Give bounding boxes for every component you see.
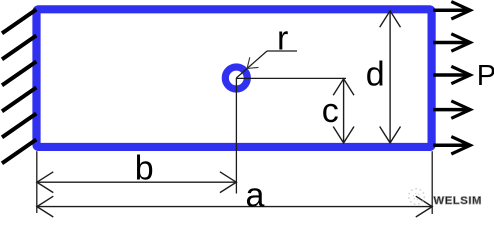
centerline vertical from hole down to b dimension xyxy=(235,78,237,194)
fixed-support hatch line 6 xyxy=(2,140,36,164)
extension line left (below bottom-left corner) xyxy=(36,151,38,213)
load arrow 2 xyxy=(433,34,470,51)
fixed-support hatch line 4 xyxy=(2,88,36,112)
fixed-support hatch line 5 xyxy=(2,114,36,138)
fixed-support hatch line 2 xyxy=(2,36,36,60)
svg-text:d: d xyxy=(366,55,385,93)
svg-text:P: P xyxy=(477,60,494,92)
svg-text:b: b xyxy=(135,150,154,188)
svg-text:c: c xyxy=(322,92,339,130)
dimension c (vertical double arrow) xyxy=(333,79,354,143)
WELSIM watermark icon xyxy=(409,189,425,205)
load arrow 4 xyxy=(433,101,470,118)
dimension d (vertical double arrow) xyxy=(380,11,401,143)
extension line right (below bottom-right corner) xyxy=(431,151,433,214)
svg-text:r: r xyxy=(277,19,288,57)
dimension b (horizontal double arrow) xyxy=(37,172,236,193)
svg-text:WELSIM: WELSIM xyxy=(434,195,482,207)
centerline horizontal from hole to c dimension xyxy=(236,77,346,79)
svg-text:a: a xyxy=(246,176,265,214)
load arrow 3 xyxy=(433,66,470,83)
load arrow 1 xyxy=(433,2,470,19)
leader line for r xyxy=(236,51,297,78)
dimension a (horizontal double arrow) xyxy=(37,196,432,217)
hole (circle) xyxy=(225,67,247,89)
fixed-support hatch line 3 xyxy=(2,62,36,86)
load arrow 5 xyxy=(433,137,470,154)
fixed-support hatch line 1 xyxy=(2,10,36,34)
plate outline (rectangle with hole) xyxy=(37,9,432,147)
